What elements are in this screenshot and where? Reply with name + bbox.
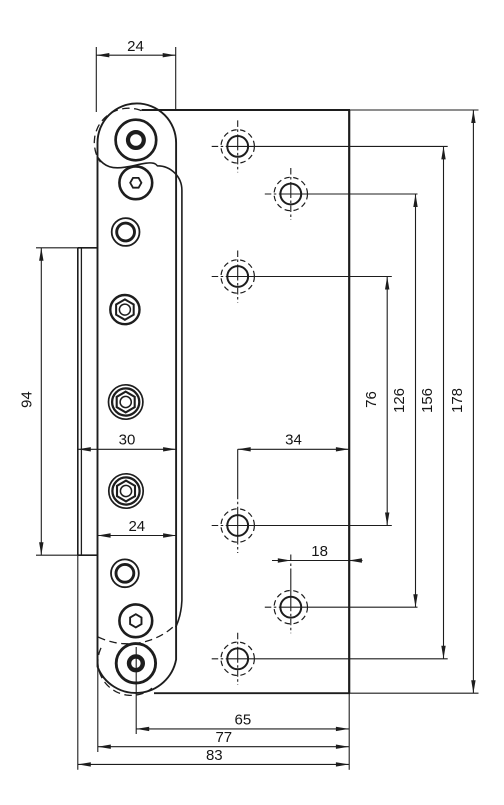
svg-text:65: 65 (235, 711, 252, 728)
dimension 126: dim line (413, 194, 417, 607)
knuckle circle C1 (top pin) (116, 120, 157, 161)
screw C3 (ring) (112, 218, 140, 246)
dashed wave bottom (open position) (98, 624, 176, 644)
hole H3 (221, 260, 254, 293)
plate top edge (142, 109, 351, 111)
plate right edge (348, 110, 350, 693)
dimension 178: extension lines (350, 110, 479, 693)
knuckle circle C9 (bottom pin) (116, 644, 155, 683)
dimension 65: extension line from pin (135, 647, 137, 734)
right extension of plate edge for bottom dims (348, 693, 350, 770)
dimension 178: dim line (471, 110, 475, 693)
dimension 24 lower: dim line (98, 533, 177, 537)
strip inner thickness line (80, 248, 82, 555)
hole H4 (221, 509, 254, 542)
dimension 24 top: extension lines (96, 47, 175, 112)
dashed arc top knuckle (open position) (94, 108, 141, 162)
hole H2 centerlines (265, 168, 418, 220)
dimension 76: dim line (385, 277, 389, 526)
dimension 77: extension line (97, 650, 99, 752)
knuckle circle C8 (hex pin end) (119, 604, 152, 637)
dimension 94: dim line (39, 248, 43, 555)
dimension 24 top: dim line (96, 53, 175, 57)
hole H6 (221, 642, 254, 675)
svg-text:178: 178 (449, 388, 466, 413)
svg-text:34: 34 (285, 432, 302, 449)
svg-text:24: 24 (128, 518, 145, 535)
dimension 94: extension lines (36, 248, 84, 555)
screw C6 (hex nut double ring) (109, 474, 143, 508)
svg-text:77: 77 (215, 729, 232, 746)
dashed arc bottom knuckle (open position) (98, 648, 152, 696)
svg-text:30: 30 (119, 432, 136, 449)
hole H1 (221, 130, 254, 163)
screw C5 (hex nut double ring) (109, 385, 143, 419)
screw C7 (ring) (111, 559, 139, 587)
hole H3 centerlines (212, 251, 392, 303)
strip left leaf edge-on: left line (77, 248, 79, 555)
hole H1 centerlines (212, 120, 448, 172)
strip top edge (78, 247, 98, 249)
svg-text:126: 126 (391, 388, 408, 413)
hinge leaf (front, stadium outline) (98, 103, 177, 693)
strip bottom edge (78, 554, 98, 556)
dimension 18: dim line with outside arrows (272, 558, 363, 562)
dimension 65: dim line (136, 727, 349, 731)
svg-text:83: 83 (206, 747, 223, 764)
frame leaf (back, S-curve outline) (98, 158, 182, 628)
svg-text:94: 94 (19, 391, 36, 408)
hole H5 centerlines (265, 555, 418, 634)
svg-text:18: 18 (311, 543, 328, 560)
svg-text:76: 76 (363, 391, 380, 408)
dimension 83: extension line (77, 555, 79, 770)
screw C4 (hex socket) (110, 295, 139, 324)
plate bottom edge (154, 692, 350, 694)
svg-text:156: 156 (419, 388, 436, 413)
dimension 30: dim line (78, 447, 176, 451)
hole H4 centerlines (212, 449, 392, 553)
dimension 83: dim line (78, 762, 349, 766)
hole H5 (274, 591, 307, 624)
dimension 34: dim line (238, 447, 349, 451)
hole H6 centerlines (212, 633, 448, 685)
dimension 77: dim line (98, 745, 349, 749)
svg-text:24: 24 (127, 38, 144, 55)
knuckle circle C2 (hex pin end) (119, 166, 152, 199)
hole H2 (274, 177, 307, 210)
dimension 156: dim line (441, 146, 445, 658)
